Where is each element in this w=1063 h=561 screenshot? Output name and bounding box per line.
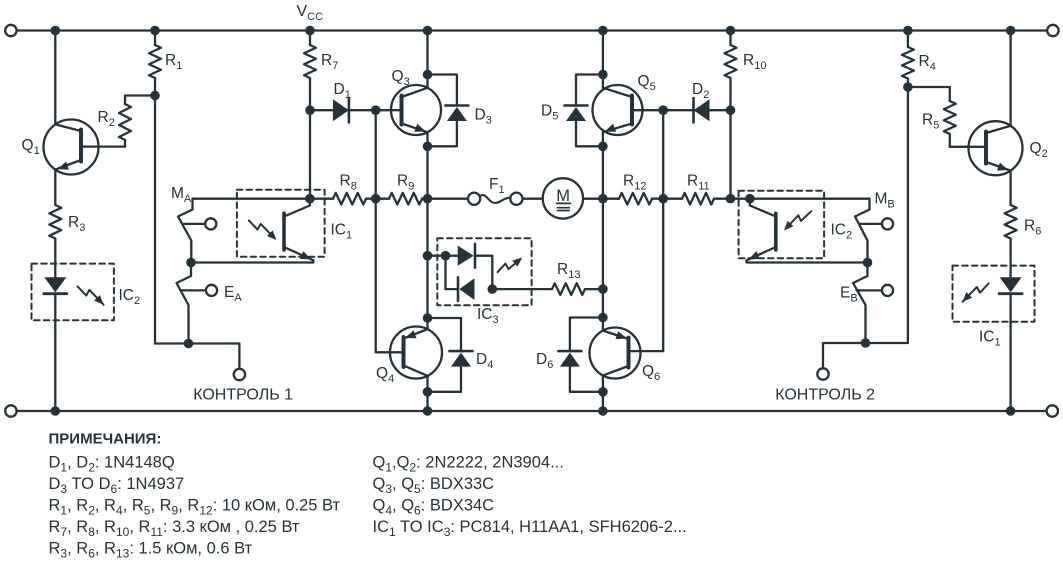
wire fuse to motor: [523, 198, 543, 200]
node D1-Q3 base: [371, 105, 381, 115]
phototransistor IC2 right: [747, 199, 867, 263]
node D3 top: [423, 70, 433, 80]
resistor R4: [902, 26, 914, 87]
diode D2: [663, 98, 730, 122]
note R 1.5k: [49, 540, 253, 561]
node Q6 bottom: [598, 387, 608, 397]
LED IC3 bottom: [458, 277, 475, 301]
label R10: [743, 52, 766, 72]
wire Q6 base: [629, 199, 664, 351]
node R8-R9: [371, 194, 381, 204]
node B junction: [863, 258, 873, 268]
wire LED to bottom rail: [51, 294, 61, 416]
label R13: [557, 261, 580, 281]
resistor R13: [492, 283, 603, 295]
node R13 right: [598, 284, 608, 294]
svg-text:КОНТРОЛЬ 1: КОНТРОЛЬ 1: [193, 386, 293, 403]
wire into IC3: [428, 255, 446, 257]
node A junction: [186, 258, 196, 268]
resistor R9: [376, 193, 428, 205]
wire LED to bottom rail right: [1006, 294, 1016, 416]
svg-text:M: M: [556, 187, 570, 205]
label IC3: [477, 306, 499, 326]
wire to control 1 terminal: [189, 344, 240, 369]
node Q5 emitter: [598, 142, 608, 152]
node R12-R11: [658, 194, 668, 204]
wire output col upper mid: [426, 199, 428, 256]
svg-text:D3​ TO D6​: 1N4937: D3​ TO D6​: 1N4937: [49, 475, 185, 496]
wire MA row: [193, 198, 310, 200]
light arrow IC3: [498, 258, 523, 273]
label D2: [692, 81, 709, 101]
label R11: [687, 173, 710, 193]
light arrow into IC2 right: [784, 211, 811, 230]
label Q3: [392, 68, 410, 88]
optocoupler box IC1 right: [953, 266, 1035, 322]
switch EB: [853, 263, 893, 344]
node bridge right output: [598, 194, 608, 204]
node R11 right: [726, 194, 736, 204]
label D6: [536, 351, 553, 371]
resistor R12: [603, 193, 663, 205]
wire to control 2 terminal: [823, 343, 866, 368]
wire Q1 base: [81, 145, 125, 147]
terminal top-right: [1047, 25, 1058, 36]
diode D5: [565, 75, 603, 147]
node IC3 left: [423, 251, 433, 261]
wire right sense column: [866, 87, 908, 343]
wire left sense column: [155, 96, 189, 344]
note R 3.3k: [49, 518, 300, 539]
optocoupler box IC2 left: [32, 264, 114, 321]
terminal control 2: [817, 368, 828, 379]
label Q4: [376, 365, 394, 385]
label R6: [1024, 218, 1041, 238]
label MB: [875, 191, 895, 211]
motor M1: [543, 178, 583, 218]
label R5: [922, 112, 939, 132]
label F1: [489, 176, 505, 196]
label EB: [840, 285, 858, 305]
terminal top-left: [5, 25, 16, 36]
wire R2 to R1 node: [125, 91, 160, 101]
terminal bottom-right: [1047, 405, 1058, 416]
node IC3 inner left: [441, 251, 451, 261]
wire Q1 collector from top rail: [51, 26, 61, 125]
node bridge left output: [423, 194, 433, 204]
wire base node down to R12-R11 node: [662, 110, 664, 199]
svg-text:R7​, R8​, R10​, R11​: 3.3 кОм: R7​, R8​, R10​, R11​: 3.3 кОм , 0.25 Вт: [49, 518, 300, 539]
label IC2 right: [831, 222, 853, 242]
optocoupler box IC1 left: [237, 190, 325, 257]
label KONTROL 1: [193, 386, 293, 403]
wire R6 to LED IC1: [1009, 239, 1011, 279]
wire Q2 emitter to R6: [1009, 171, 1011, 205]
wire Q5 base: [632, 109, 663, 111]
note IC1-IC3: [373, 518, 687, 539]
optocoupler box IC2 right: [739, 191, 825, 259]
svg-text:ПРИМЕЧАНИЯ:: ПРИМЕЧАНИЯ:: [49, 431, 162, 448]
switch MA: [178, 199, 216, 263]
resistor R1: [149, 26, 161, 96]
wire Q2 collector to top rail: [1006, 26, 1016, 126]
resistor R6: [1005, 205, 1017, 239]
label D4: [476, 351, 493, 371]
label VCC: [297, 3, 324, 23]
wire Q1 emitter to R3: [54, 170, 56, 205]
optocoupler box IC3: [437, 238, 531, 305]
note Q1 Q2: [373, 454, 564, 475]
wire base node down to R8-R9 node: [375, 110, 377, 199]
wire Q6 to bottom rail: [598, 392, 608, 416]
wire Q4 base: [376, 199, 404, 353]
diode D1: [310, 98, 376, 122]
wire Q3 collector to top rail: [423, 26, 433, 88]
terminal bottom-left: [5, 405, 16, 416]
label D5: [541, 103, 558, 123]
transistor Q2: [969, 121, 1023, 175]
resistor R3: [49, 205, 61, 239]
wire Q4 to bottom rail: [423, 392, 433, 416]
light arrow into IC1 left: [249, 220, 277, 240]
wire Q3 base: [376, 109, 402, 111]
node Q4 emitter-D4: [423, 313, 433, 323]
node IC3 inner right: [488, 284, 498, 294]
LED IC2 left: [44, 277, 67, 293]
wire right output col mid: [602, 199, 604, 318]
label Q5: [638, 73, 656, 93]
phototransistor IC1 left: [191, 199, 313, 263]
transistor Q4: [390, 318, 442, 392]
wire bottom rail: [17, 410, 1047, 412]
node R4-R5: [903, 82, 913, 92]
resistor R5: [944, 101, 956, 134]
label R12: [623, 173, 646, 193]
label D3: [475, 107, 492, 127]
node EB bottom junction: [861, 338, 871, 348]
wire top rail: [17, 29, 1048, 31]
wire Q5 emitter to mid row: [602, 132, 604, 199]
label R1: [165, 52, 182, 72]
svg-text:IC1​ TO IC3​: PC814, H11AA1, S: IC1​ TO IC3​: PC814, H11AA1, SFH6206-2..…: [373, 518, 687, 539]
label KONTROL 2: [775, 386, 875, 403]
node R7-D1: [305, 105, 315, 115]
diode D3: [428, 75, 469, 147]
label R4: [919, 53, 936, 73]
node IC2 collector junction: [745, 194, 755, 204]
label R3: [68, 214, 85, 234]
light arrow IC1 right: [963, 284, 989, 302]
node Q4 bottom: [423, 387, 433, 397]
label R7: [321, 52, 338, 72]
label R9: [397, 173, 414, 193]
LED IC1 right: [999, 277, 1022, 293]
light arrow IC2 left: [78, 286, 104, 304]
label D1: [334, 81, 351, 101]
svg-text:R3​, R6​, R13​: 1.5 кОм, 0.6 В: R3​, R6​, R13​: 1.5 кОм, 0.6 Вт: [49, 540, 253, 561]
label IC2 left: [119, 287, 141, 307]
node EA bottom junction: [184, 339, 194, 349]
node MA-R8 junction: [305, 194, 315, 204]
transistor Q1: [44, 120, 99, 175]
svg-text:D1​, D2​: 1N4148Q: D1​, D2​: 1N4148Q: [49, 454, 175, 475]
note Q3 Q5: [373, 475, 495, 496]
diode D4: [428, 318, 473, 392]
node D5 top: [598, 70, 608, 80]
terminal control 1: [234, 369, 245, 380]
wire Q3 emitter to mid row: [426, 132, 428, 199]
node D2-R10: [726, 105, 736, 115]
label Q1: [22, 137, 40, 157]
resistor R11: [663, 193, 730, 205]
transistor Q6: [590, 318, 641, 392]
wire to fuse: [428, 198, 469, 200]
note D1 D2: [49, 454, 175, 475]
wire IC3 inner left down: [446, 256, 459, 289]
transistor Q3: [391, 85, 441, 135]
node Q5 base-D2: [658, 105, 668, 115]
note R 10k: [49, 497, 341, 518]
switch EA: [177, 263, 218, 344]
fuse F1: [468, 193, 523, 205]
label MA: [171, 185, 192, 205]
note D3-D6: [49, 475, 185, 496]
wire R10 node down to mid row: [729, 110, 731, 199]
resistor R7: [304, 26, 316, 111]
wire R3 to LED IC2: [54, 239, 56, 279]
label IC1 left: [331, 222, 353, 242]
resistor R8: [310, 193, 376, 205]
wire R4 node to R5: [908, 87, 950, 101]
resistor R10: [725, 26, 737, 111]
label Q6: [642, 363, 660, 383]
note Q4 Q6: [373, 497, 495, 518]
wire R7 node down to IC1 node: [309, 110, 311, 199]
label EA: [224, 284, 242, 304]
wire MB row: [731, 198, 870, 200]
wire R5 to Q2 base: [950, 134, 986, 147]
svg-text:Q1​,Q2​: 2N2222, 2N3904...: Q1​,Q2​: 2N2222, 2N3904...: [373, 454, 564, 475]
transistor Q5: [593, 85, 643, 135]
label Q2: [1030, 140, 1048, 160]
notes header: [49, 431, 162, 448]
LED IC3 top: [446, 244, 493, 289]
svg-text:КОНТРОЛЬ 2: КОНТРОЛЬ 2: [775, 386, 875, 403]
label IC1 right: [979, 329, 1001, 349]
node Q3 emitter: [423, 142, 433, 152]
wire Q5 collector to top rail: [598, 26, 608, 88]
label R2: [98, 109, 115, 129]
wire output col lower mid: [426, 256, 428, 318]
diode D6: [558, 318, 603, 392]
wire motor to right output: [583, 198, 603, 200]
label R8: [340, 173, 357, 193]
switch MB: [855, 199, 893, 263]
resistor R2: [119, 96, 131, 147]
node Q6 emitter-D6: [598, 313, 608, 323]
